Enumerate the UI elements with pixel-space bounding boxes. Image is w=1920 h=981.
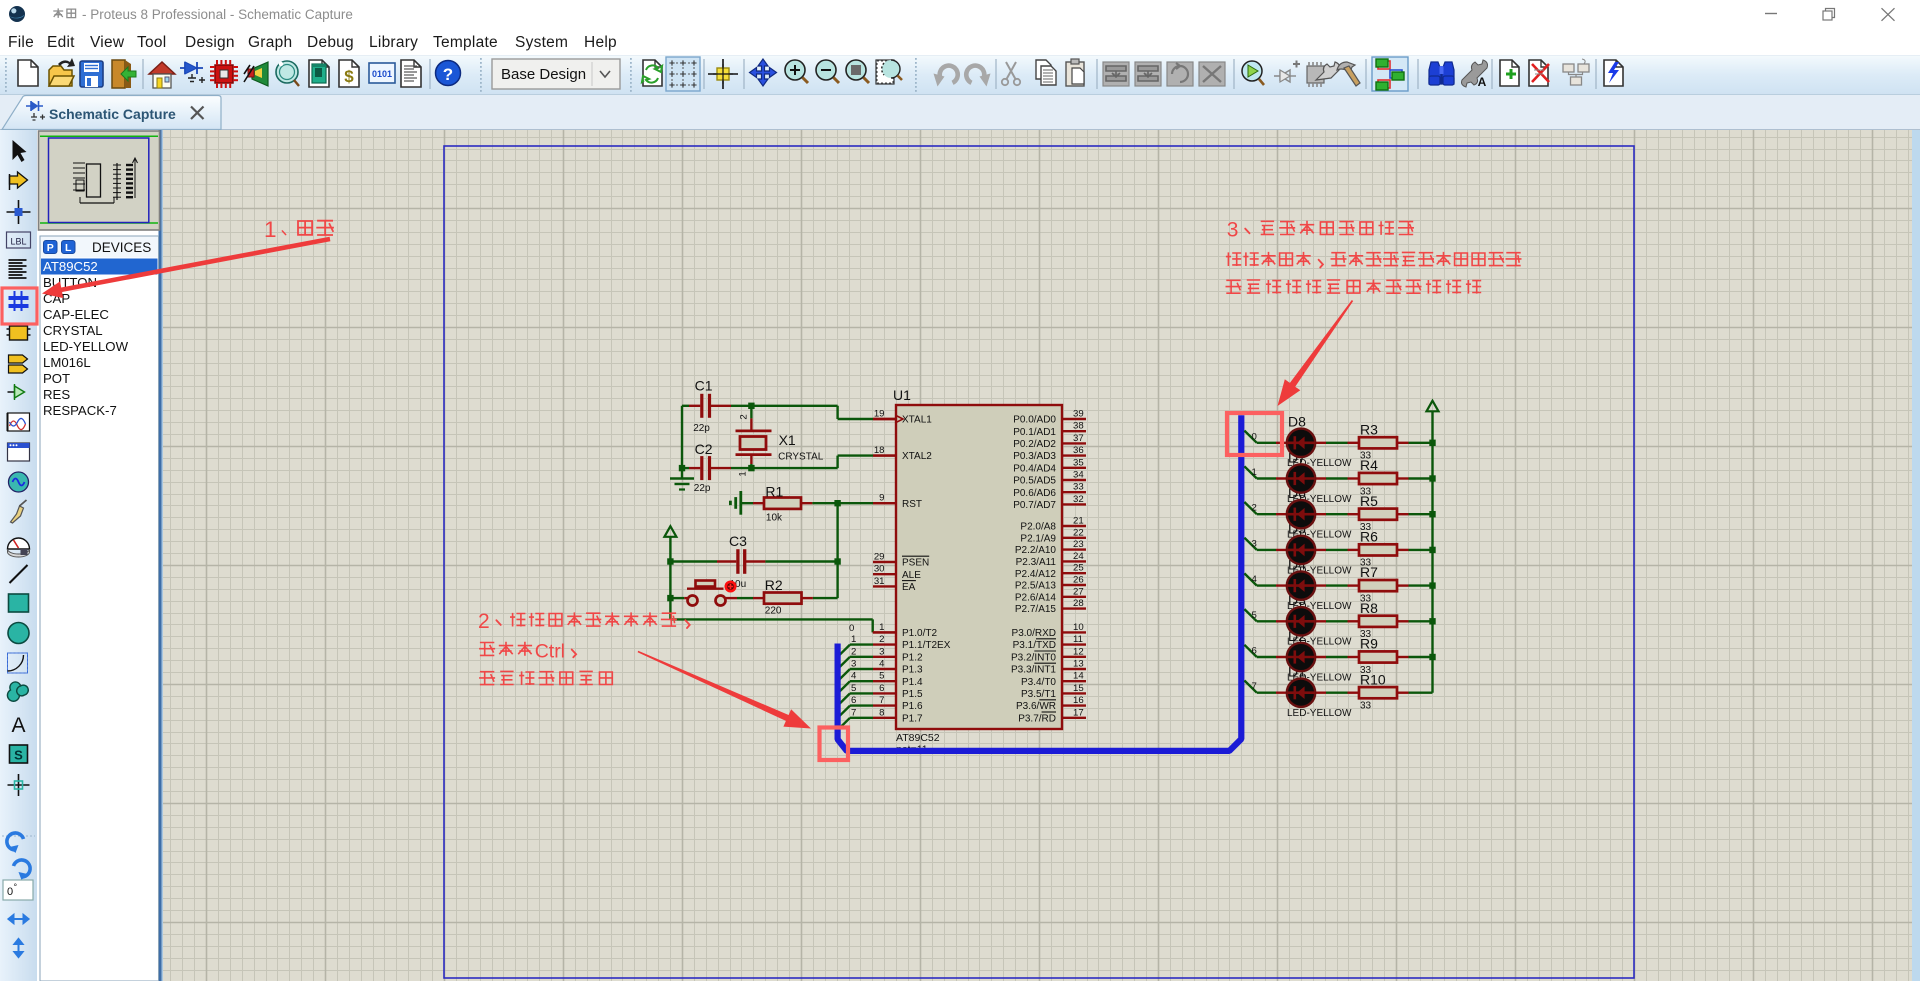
svg-text:P1.0/T2: P1.0/T2 [902,628,937,639]
svg-text:LM016L: LM016L [43,355,91,370]
svg-text:Design: Design [185,34,235,51]
svg-text:X1: X1 [779,432,796,448]
svg-text:C3: C3 [729,533,747,549]
svg-text:5: 5 [1252,610,1257,621]
svg-text:6: 6 [879,683,884,694]
svg-text:6: 6 [1252,646,1257,657]
svg-text:3: 3 [879,646,884,657]
svg-text:CRYSTAL: CRYSTAL [778,452,824,463]
svg-text:1: 1 [1252,467,1257,478]
svg-text:1: 1 [738,471,749,476]
svg-text:28: 28 [1073,598,1084,609]
svg-text:AT89C52: AT89C52 [43,259,98,274]
svg-text:0: 0 [849,623,854,634]
svg-text:Help: Help [584,34,617,51]
svg-text:14: 14 [1073,671,1084,682]
svg-text:27: 27 [1073,586,1084,597]
svg-text:Graph: Graph [248,34,292,51]
svg-text:15: 15 [1073,683,1084,694]
svg-text:13: 13 [1073,659,1084,670]
svg-text:220: 220 [765,605,782,616]
svg-text:RES: RES [43,387,70,402]
svg-text:P0.4/AD4: P0.4/AD4 [1013,463,1056,474]
svg-text:22: 22 [1073,527,1084,538]
svg-text:P2.2/A10: P2.2/A10 [1015,545,1057,556]
svg-text:C1: C1 [695,378,713,394]
svg-text:A: A [11,714,25,737]
svg-text:EA: EA [902,582,916,593]
svg-text:File: File [8,34,34,51]
svg-text:16: 16 [1073,695,1084,706]
svg-text:R6: R6 [1360,529,1378,545]
svg-text:25: 25 [1073,563,1084,574]
svg-text:LBL: LBL [10,237,26,247]
svg-text:2: 2 [1252,503,1257,514]
svg-text:19: 19 [874,409,885,420]
svg-text:22p: 22p [694,483,711,494]
svg-text:P3.6/WR: P3.6/WR [1016,701,1056,712]
svg-text:P0.5/AD5: P0.5/AD5 [1013,476,1056,487]
svg-text:7: 7 [879,695,884,706]
svg-text:P3.2/INT0: P3.2/INT0 [1011,652,1056,663]
svg-text:P1.3: P1.3 [902,665,923,676]
svg-text:P1.1/T2EX: P1.1/T2EX [902,640,951,651]
svg-text:CRYSTAL: CRYSTAL [43,323,103,338]
svg-text:4: 4 [1252,574,1258,585]
svg-text:17: 17 [1073,707,1084,718]
svg-text:10: 10 [1073,622,1084,633]
svg-text:P1.6: P1.6 [902,701,923,712]
svg-text:7: 7 [851,707,856,718]
svg-text:C2: C2 [695,441,713,457]
svg-text:R2: R2 [765,577,783,593]
svg-text:R5: R5 [1360,493,1378,509]
svg-text:P0.1/AD1: P0.1/AD1 [1013,427,1056,438]
svg-text:24: 24 [1073,551,1084,562]
svg-text:P3.1/TXD: P3.1/TXD [1013,640,1056,651]
svg-text:32: 32 [1073,494,1084,505]
svg-text:D8: D8 [1288,414,1306,430]
svg-text:33: 33 [1360,701,1372,712]
svg-text:A: A [1478,75,1487,89]
svg-text:°: ° [14,882,18,892]
svg-text:11: 11 [1073,634,1083,645]
svg-text:2: 2 [851,646,856,657]
svg-text:29: 29 [874,552,885,563]
svg-text:P0.2/AD2: P0.2/AD2 [1013,439,1056,450]
svg-text:P1.5: P1.5 [902,689,923,700]
svg-text:P3.5/T1: P3.5/T1 [1021,689,1056,700]
svg-text:36: 36 [1073,445,1084,456]
svg-text:P3.3/INT1: P3.3/INT1 [1011,665,1056,676]
svg-text:P: P [47,242,54,254]
svg-text:View: View [90,34,125,51]
svg-text:0101: 0101 [372,69,392,79]
svg-text:P2.1/A9: P2.1/A9 [1020,533,1056,544]
svg-text:$: $ [344,67,354,86]
svg-text:RESPACK-7: RESPACK-7 [43,403,117,418]
svg-text:37: 37 [1073,433,1084,444]
svg-text:LED-YELLOW: LED-YELLOW [1287,708,1352,719]
svg-text:P2.4/A12: P2.4/A12 [1015,569,1057,580]
svg-text:XTAL2: XTAL2 [902,451,932,462]
svg-text:P0.3/AD3: P0.3/AD3 [1013,451,1056,462]
svg-text:30: 30 [874,564,885,575]
svg-text:Ctrl: Ctrl [535,640,565,662]
svg-text:35: 35 [1073,457,1084,468]
svg-text:3: 3 [1227,218,1239,241]
svg-text:R4: R4 [1360,457,1378,473]
svg-text:4: 4 [851,671,857,682]
svg-text:XTAL1: XTAL1 [902,415,932,426]
svg-text:Template: Template [433,34,498,51]
svg-text:PSEN: PSEN [902,558,929,569]
svg-text:Tool: Tool [137,34,166,51]
svg-text:P3.0/RXD: P3.0/RXD [1012,628,1056,639]
svg-text:22p: 22p [693,423,710,434]
svg-text:R1: R1 [765,484,783,500]
svg-text:38: 38 [1073,421,1084,432]
svg-text:2: 2 [879,634,884,645]
svg-text:CAP-ELEC: CAP-ELEC [43,307,109,322]
svg-text:1: 1 [851,634,856,645]
svg-text:P1.7: P1.7 [902,713,923,724]
svg-text:Edit: Edit [47,34,75,51]
svg-text:P3.7/RD: P3.7/RD [1018,713,1056,724]
svg-text:P3.4/T0: P3.4/T0 [1021,677,1056,688]
svg-text:23: 23 [1073,539,1084,550]
svg-text:1: 1 [879,622,884,633]
svg-text:R8: R8 [1360,600,1378,616]
svg-text:10k: 10k [766,513,783,524]
svg-text:LED-YELLOW: LED-YELLOW [43,339,129,354]
svg-text:L: L [65,242,72,254]
svg-text:P2.6/A14: P2.6/A14 [1015,592,1057,603]
svg-text:P0.0/AD0: P0.0/AD0 [1013,415,1056,426]
svg-text:2: 2 [478,610,490,633]
svg-text:P2.0/A8: P2.0/A8 [1020,522,1056,533]
svg-text:34: 34 [1073,470,1084,481]
svg-text:9: 9 [879,493,884,504]
svg-text:P0.7/AD7: P0.7/AD7 [1013,500,1056,511]
svg-text:26: 26 [1073,575,1084,586]
svg-text:3: 3 [1252,538,1257,549]
svg-text:Library: Library [369,34,418,51]
svg-text:5: 5 [879,671,884,682]
svg-text:2: 2 [739,414,750,419]
svg-text:31: 31 [874,576,885,587]
svg-text:R3: R3 [1360,421,1378,437]
svg-text:P2.5/A13: P2.5/A13 [1015,581,1057,592]
svg-text:18: 18 [874,445,885,456]
svg-text:System: System [515,34,568,51]
svg-text:?: ? [443,65,453,84]
svg-text:0: 0 [1252,431,1257,442]
svg-text:P0.6/AD6: P0.6/AD6 [1013,488,1056,499]
svg-text:33: 33 [1073,482,1084,493]
svg-text:1: 1 [264,217,277,242]
svg-text:- Proteus 8 Professional - Sch: - Proteus 8 Professional - Schematic Cap… [82,7,353,22]
svg-text:4: 4 [879,659,885,670]
svg-text:6: 6 [851,695,856,706]
svg-text:RST: RST [902,499,922,510]
svg-text:7: 7 [1252,681,1257,692]
svg-text:0: 0 [7,886,13,898]
svg-text:3: 3 [851,659,856,670]
svg-text:P2.3/A11: P2.3/A11 [1016,557,1057,568]
svg-text:AT89C52: AT89C52 [896,732,940,744]
svg-text:U1: U1 [893,387,911,403]
svg-text:DEVICES: DEVICES [92,240,151,255]
svg-text:Debug: Debug [307,34,354,51]
svg-text:12: 12 [1073,646,1084,657]
svg-text:Schematic Capture: Schematic Capture [49,106,176,122]
svg-text:8: 8 [879,707,884,718]
svg-text:5: 5 [851,683,856,694]
svg-text:R9: R9 [1360,636,1378,652]
svg-text:S: S [14,748,23,763]
svg-text:P2.7/A15: P2.7/A15 [1015,604,1057,615]
svg-text:R7: R7 [1360,564,1378,580]
svg-text:Base Design: Base Design [501,66,586,83]
svg-text:POT: POT [43,371,70,386]
svg-text:39: 39 [1073,409,1084,420]
svg-text:P1.2: P1.2 [902,652,923,663]
svg-text:ALE: ALE [902,570,921,581]
svg-text:P1.4: P1.4 [902,677,923,688]
svg-text:R10: R10 [1360,671,1386,687]
svg-text:21: 21 [1073,516,1084,527]
